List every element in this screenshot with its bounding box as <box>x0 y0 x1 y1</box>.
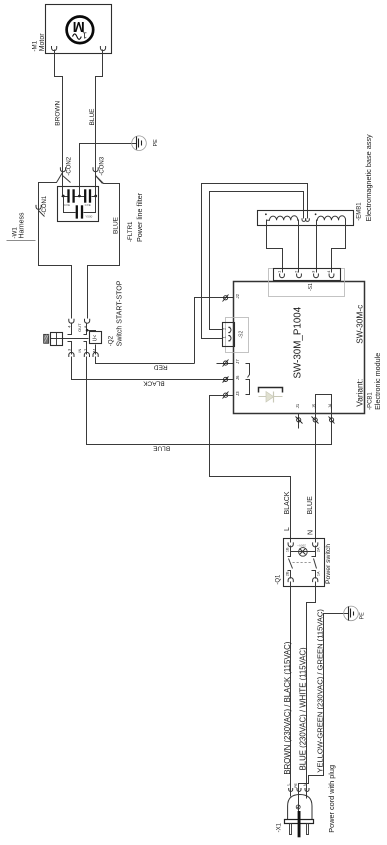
label -S1 <box>308 283 314 291</box>
node N filter <box>94 195 97 198</box>
Q1 pin 1B <box>286 542 294 552</box>
svg-text:L: L <box>284 527 291 531</box>
label RED <box>154 364 168 371</box>
S2 pin 2 <box>222 327 231 332</box>
switch Q2 bridge <box>51 338 89 340</box>
label CY1 value <box>64 203 70 207</box>
svg-text:Motor: Motor <box>39 33 46 52</box>
wire S2-1 to EMB1 tap A <box>202 184 308 339</box>
coil U< box <box>90 332 102 344</box>
Q1 pin 1A <box>313 571 321 582</box>
pin J6 <box>223 375 240 383</box>
svg-text:-M1: -M1 <box>31 40 38 51</box>
label pin A1 <box>92 347 97 353</box>
label OUT <box>77 323 82 332</box>
power switch Q1 box <box>284 539 325 587</box>
svg-text:BLUE: BLUE <box>112 216 119 234</box>
svg-text:-EMB1: -EMB1 <box>357 202 363 221</box>
svg-text:1A: 1A <box>316 571 320 576</box>
connector S2 outline <box>226 318 249 353</box>
S1 pin 2 <box>294 270 302 278</box>
svg-text:J5: J5 <box>311 403 316 408</box>
Q1 pin 2A <box>313 542 321 552</box>
inductor L2 <box>315 213 346 220</box>
svg-text:Power cord with plug: Power cord with plug <box>327 765 336 833</box>
svg-text:-S1: -S1 <box>308 283 314 291</box>
svg-text:-Q2: -Q2 <box>108 335 115 346</box>
label pin 8 <box>83 325 88 328</box>
svg-text:Y500: Y500 <box>85 214 92 218</box>
wire BLACK pin3 to J6 <box>72 357 234 380</box>
plug X1 prong PE <box>298 811 301 837</box>
label PE2 <box>360 612 366 620</box>
label pin 3 <box>66 348 71 351</box>
svg-text:J7: J7 <box>235 359 240 364</box>
label lamp value <box>297 544 306 548</box>
svg-text:2B: 2B <box>286 571 290 576</box>
pin J4 <box>328 403 335 423</box>
svg-text:-W1: -W1 <box>11 227 18 239</box>
capacitor CX1 <box>77 205 82 218</box>
label CX1 value <box>85 214 92 218</box>
plug X1 body <box>285 795 314 824</box>
wire BLACK J3 to Q1 L <box>210 396 291 543</box>
svg-text:250V~: 250V~ <box>297 544 306 548</box>
wire L1b to S1-2 <box>298 220 300 273</box>
wire J7 stub <box>217 363 234 365</box>
LED bracket <box>259 388 283 393</box>
label pin 4 <box>66 325 71 328</box>
wire L2a to S1-3 <box>316 220 318 273</box>
EMB1 box <box>258 211 354 226</box>
connector S1 strip <box>274 269 341 281</box>
connector S2 box <box>223 323 235 347</box>
S1 pin 3 <box>311 270 319 278</box>
svg-text:PE: PE <box>360 612 366 620</box>
PCB link J5-J4 <box>316 395 332 414</box>
ground PE2 <box>344 606 359 621</box>
switch Q2 pin 3 <box>69 352 74 357</box>
label -X1 <box>276 822 282 832</box>
wire BLUE J5 to Q1 N <box>315 414 317 543</box>
svg-text:CXE: CXE <box>64 203 70 207</box>
pin J2 <box>223 293 240 301</box>
wire PE1 from filter <box>80 144 137 197</box>
label Power switch <box>325 544 332 584</box>
svg-text:-S2: -S2 <box>239 331 245 339</box>
wire U-coil to A1 <box>95 345 97 355</box>
label Electromagnetic base assy <box>364 134 373 222</box>
wire motor U2 to CON3 (BLUE) <box>96 50 103 197</box>
switch Q2 pin 8 <box>85 319 90 324</box>
wire RED A1 to J7 <box>96 357 195 364</box>
S1 pin 1 <box>277 270 285 278</box>
switch Q2 pole B contact <box>84 323 87 355</box>
svg-text:2A: 2A <box>316 547 320 552</box>
label BLUE (N wire) <box>307 496 314 515</box>
svg-text:J4: J4 <box>328 403 333 408</box>
label BLACK <box>143 380 165 387</box>
label SW-30M-c <box>354 305 364 344</box>
Q1 lamp wire <box>291 546 316 552</box>
svg-text:SW-30M-c: SW-30M-c <box>354 305 364 344</box>
Q1 pin 2B <box>286 571 294 582</box>
wire L1a to S1-1 <box>267 220 283 273</box>
label -EMB1 <box>357 202 363 221</box>
plug X1 pin PE <box>294 783 301 792</box>
svg-text:2: 2 <box>222 328 226 330</box>
connector CON3 <box>93 167 103 183</box>
wire PE2 to plug <box>299 614 349 813</box>
label pin 7 <box>83 348 88 351</box>
label -CON1 <box>42 195 48 214</box>
label BLACK (L wire) <box>284 491 291 514</box>
svg-text:Harness: Harness <box>19 212 26 239</box>
filter X-cap rail left <box>64 197 76 213</box>
label -W1 Harness <box>11 212 25 239</box>
label Variant <box>354 379 364 407</box>
wire L2b to S1-4 <box>332 220 346 273</box>
wire L cord <box>290 582 292 797</box>
switch Q2 pole A contact <box>68 323 72 355</box>
filter top row wire <box>62 196 96 198</box>
svg-text:1B: 1B <box>286 547 290 552</box>
filter FLTR1 box <box>58 187 99 222</box>
label BROWN <box>55 100 62 125</box>
label -PCB1 <box>367 392 373 410</box>
filter X-cap rail right <box>84 197 96 213</box>
svg-text:-CON2: -CON2 <box>67 156 73 175</box>
svg-text:J6: J6 <box>235 375 240 380</box>
svg-text:Switch START-STOP: Switch START-STOP <box>117 280 124 346</box>
svg-text:IN: IN <box>77 348 82 352</box>
plug X1 prong L <box>290 824 292 835</box>
wire dot to U-coil <box>88 331 96 332</box>
connector CON2 <box>60 167 70 182</box>
label -M1 Motor <box>31 33 46 52</box>
svg-text:-CON3: -CON3 <box>100 156 106 175</box>
svg-text:Electromagnetic base assy: Electromagnetic base assy <box>364 134 373 222</box>
PCB internal link J6-J3 <box>246 380 250 395</box>
ground PE1 <box>132 136 147 151</box>
switch Q2 pin A1 <box>93 352 98 357</box>
label Electronic module <box>373 353 382 410</box>
svg-text:SW-30M_P1004: SW-30M_P1004 <box>292 306 303 378</box>
label Switch START-STOP <box>117 280 124 346</box>
LED D1 <box>259 392 283 403</box>
svg-text:Power switch: Power switch <box>325 544 332 584</box>
svg-text:J2: J2 <box>235 293 240 298</box>
node L filter <box>62 195 65 198</box>
wire N cord <box>307 582 316 799</box>
pin J5 <box>311 403 318 423</box>
wire harness L tap to switch pin4 <box>39 173 72 319</box>
wire S2-2 to EMB1 tap B <box>210 192 304 330</box>
switch Q2 button cap <box>44 334 49 343</box>
svg-text:-FLTR1: -FLTR1 <box>127 221 134 242</box>
inductor L1 <box>265 213 299 220</box>
svg-text:BROWN (230VAC) / BLACK (115VAC: BROWN (230VAC) / BLACK (115VAC) <box>283 641 292 774</box>
S1 pin 4 <box>326 270 334 278</box>
svg-text:1: 1 <box>82 31 87 41</box>
svg-text:BLUE (230VAC) / WHITE (115VAC): BLUE (230VAC) / WHITE (115VAC) <box>298 647 307 770</box>
switch Q2 undervoltage dot <box>86 329 89 332</box>
pin J3 <box>223 391 240 399</box>
connector CON1 <box>36 205 45 217</box>
Q1 pole L contact <box>288 552 293 579</box>
svg-text:U<: U< <box>93 335 99 342</box>
EMB1 center taps <box>302 218 309 221</box>
svg-text:1: 1 <box>222 336 226 338</box>
PCB1 box <box>234 282 365 414</box>
capacitor CY1 <box>69 189 74 202</box>
svg-text:BLUE: BLUE <box>307 496 314 515</box>
svg-text:N: N <box>307 530 314 535</box>
node PE filter <box>78 195 81 198</box>
label Power cord with plug <box>327 765 336 833</box>
label IN <box>77 348 82 352</box>
plug X1 pin N <box>302 783 309 791</box>
label BLUE (filter right) <box>112 216 119 234</box>
svg-text:A1: A1 <box>92 347 97 353</box>
svg-text:RED: RED <box>154 364 168 371</box>
svg-text:OUT: OUT <box>77 323 82 332</box>
wire J2 riser <box>195 298 234 364</box>
motor M1 symbol <box>67 17 94 44</box>
PCB internal contact J7 <box>246 364 250 378</box>
svg-text:Power line filter: Power line filter <box>135 192 144 242</box>
svg-text:BLUE: BLUE <box>152 445 170 452</box>
label SW-30M_P1004 <box>292 306 303 378</box>
label -CON3 <box>100 156 106 175</box>
switch Q2 pin 4 <box>69 319 74 324</box>
label -Q2 <box>108 335 115 346</box>
svg-text:BLACK: BLACK <box>284 491 291 514</box>
svg-text:PE: PE <box>294 783 298 788</box>
svg-text:BLACK: BLACK <box>143 380 165 387</box>
plug X1 earth mark <box>296 805 300 809</box>
S2 pin 1 <box>222 336 231 341</box>
wire motor U1 to CON2 (BROWN) <box>55 50 63 197</box>
switch Q2 button box <box>51 333 63 346</box>
label BLUE (motor) <box>89 108 96 126</box>
label L <box>284 527 291 531</box>
lamp E1 <box>299 548 308 557</box>
plug X1 prong N <box>307 824 309 835</box>
pin J7 <box>223 359 240 367</box>
svg-text:Variant:: Variant: <box>354 379 364 407</box>
label BROWN/BLACK cord <box>283 641 292 774</box>
svg-text:-X1: -X1 <box>276 822 282 832</box>
svg-text:N: N <box>302 783 307 786</box>
pin J1 <box>295 403 303 428</box>
svg-text:CXE: CXE <box>85 203 91 207</box>
label -Q1 <box>275 574 281 585</box>
svg-text:YELLOW-GREEN (230VAC) / GREEN: YELLOW-GREEN (230VAC) / GREEN (115VAC) <box>315 609 324 773</box>
Q1 mechanical link <box>293 562 313 564</box>
svg-text:J1: J1 <box>295 403 300 408</box>
svg-text:-CON1: -CON1 <box>42 195 48 214</box>
Q1 pole N contact <box>312 552 317 579</box>
svg-text:J3: J3 <box>235 391 240 396</box>
label BLUE/WHITE cord <box>298 647 307 770</box>
label CY2 value <box>85 203 91 207</box>
svg-text:BROWN: BROWN <box>55 100 62 125</box>
label -FLTR1 <box>127 221 134 242</box>
label Power line filter <box>135 192 144 242</box>
label N <box>307 530 314 535</box>
harness boundary tick <box>7 240 36 242</box>
svg-text:Electronic module: Electronic module <box>373 353 382 410</box>
capacitor CY2 <box>85 189 90 202</box>
svg-text:-Q1: -Q1 <box>275 574 281 585</box>
label YG/GREEN cord <box>315 609 324 773</box>
svg-text:BLUE: BLUE <box>89 108 96 126</box>
plug X1 pin L <box>285 783 292 792</box>
motor M1 box <box>46 5 112 54</box>
label BLUE (wire) <box>152 445 170 452</box>
svg-text:PE: PE <box>153 139 159 147</box>
switch Q2 pin 7 <box>84 352 89 357</box>
wire harness N tap to switch pin8 (BLUE) <box>88 176 120 319</box>
motor pin U1 <box>52 46 57 51</box>
wire BLUE pin7 to J4 <box>87 357 332 445</box>
motor pin U2 <box>100 46 105 51</box>
connector S1 outline <box>269 269 345 297</box>
label PE1 <box>153 139 159 147</box>
label -CON2 <box>67 156 73 175</box>
label -S2 <box>239 331 245 339</box>
